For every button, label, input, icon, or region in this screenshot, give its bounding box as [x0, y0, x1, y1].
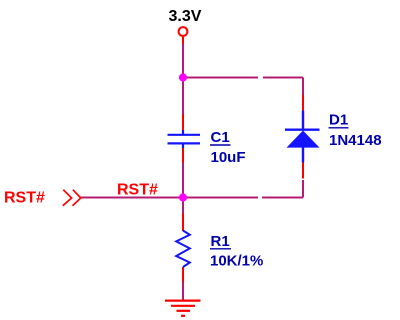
svg-text:RST#: RST# — [117, 182, 158, 199]
svg-text:3.3V: 3.3V — [169, 8, 202, 25]
svg-text:RST#: RST# — [4, 190, 45, 207]
svg-text:1N4148: 1N4148 — [329, 132, 382, 149]
svg-text:D1: D1 — [329, 112, 348, 129]
svg-text:C1: C1 — [211, 129, 230, 146]
svg-text:10uF: 10uF — [211, 149, 246, 166]
svg-text:R1: R1 — [211, 233, 230, 250]
svg-text:10K/1%: 10K/1% — [210, 253, 263, 270]
